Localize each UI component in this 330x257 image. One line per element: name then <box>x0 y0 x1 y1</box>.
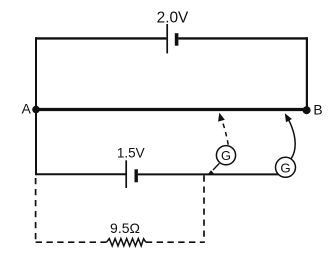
battery B2 short plate (-) <box>134 169 137 182</box>
svg-text:9.5Ω: 9.5Ω <box>110 220 140 236</box>
battery B1 long plate (+) <box>166 24 168 53</box>
node B (junction dot) <box>303 106 311 114</box>
arrowhead of G1 pointer (touching wire AB) <box>218 113 225 122</box>
galvanometer G1 (circle) <box>216 146 235 165</box>
svg-text:A: A <box>22 102 32 117</box>
wire: middle horizontal, left of battery <box>36 173 126 175</box>
wire: bottom dashed horizontal, right of resistor <box>146 241 205 243</box>
svg-text:1.5V: 1.5V <box>117 146 145 161</box>
resistor R1 zigzag <box>107 239 146 246</box>
dashed pointer arrow from G1 toward slide wire (shaft) <box>221 118 228 145</box>
wire: left vertical (top loop down to middle branch) <box>35 37 37 175</box>
galvanometer G2 (circle) <box>276 157 296 177</box>
wire: left vertical dashed (down to resistor loop) <box>35 178 37 242</box>
svg-text:G: G <box>280 160 290 175</box>
wire: right vertical dashed (middle wire down to resistor loop) <box>203 176 205 243</box>
node A (junction dot) <box>32 106 40 114</box>
curved pointer arrow from G2 toward slide wire (shaft) <box>288 119 295 158</box>
wire: middle horizontal, right of battery (to galvanometer G2) <box>138 173 279 175</box>
svg-text:B: B <box>313 103 322 118</box>
jockey stub from G1 down to slide contact <box>213 163 219 170</box>
svg-text:G: G <box>221 148 231 163</box>
slide wire A-B (thick) <box>36 108 307 111</box>
battery B1 short plate (-) <box>175 33 179 46</box>
jockey contact arrowhead on middle wire <box>208 170 215 175</box>
svg-text:2.0V: 2.0V <box>157 9 189 26</box>
arrowhead of G2 pointer (touching wire AB) <box>285 113 292 122</box>
wire: right vertical (top corner down to node B) <box>306 37 308 110</box>
wire: top horizontal, left of battery <box>35 37 166 39</box>
battery B2 long plate (+) <box>125 160 127 188</box>
wire: top horizontal, right of battery <box>178 37 307 39</box>
wire: bottom dashed horizontal, left of resistor <box>36 241 107 243</box>
